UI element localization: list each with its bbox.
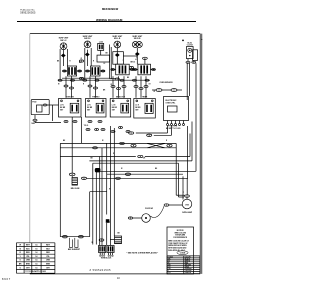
svg-text:OVEN SW: OVEN SW xyxy=(66,96,74,98)
svg-text:Y: Y xyxy=(168,270,169,272)
svg-text:T.O.D.: T.O.D. xyxy=(84,125,89,127)
svg-text:FOR REFERENCE: FOR REFERENCE xyxy=(173,237,187,239)
svg-text:5995200505: 5995200505 xyxy=(20,12,36,15)
svg-text:MDL: MDL xyxy=(32,123,35,125)
svg-text:Y: Y xyxy=(123,60,124,62)
svg-text:14: 14 xyxy=(35,244,37,247)
svg-text:SET: SET xyxy=(60,109,63,111)
svg-text:BK BR: BK BR xyxy=(135,107,141,109)
svg-text:TIMER: TIMER xyxy=(142,96,148,98)
svg-text:14: 14 xyxy=(35,255,37,258)
svg-text:L1: L1 xyxy=(135,59,137,61)
svg-text:SET: SET xyxy=(87,109,90,111)
svg-text:OVEN LAMP: OVEN LAMP xyxy=(182,211,193,214)
svg-text:BROWN: BROWN xyxy=(185,264,192,266)
svg-text:SW L.R.: SW L.R. xyxy=(114,38,121,40)
svg-text:OVEN SENSOR: OVEN SENSOR xyxy=(159,82,173,84)
svg-text:14: 14 xyxy=(35,247,37,250)
svg-text:BK BR: BK BR xyxy=(112,107,118,109)
svg-text:14: 14 xyxy=(35,266,37,269)
svg-text:14: 14 xyxy=(35,251,37,254)
svg-text:WHITE: WHITE xyxy=(185,260,190,262)
svg-text:NOTICE: NOTICE xyxy=(177,230,185,232)
svg-text:SW L.F.: SW L.F. xyxy=(60,40,67,42)
svg-text:PURPLE: PURPLE xyxy=(185,272,191,274)
svg-text:BRL ELEM: BRL ELEM xyxy=(71,188,80,190)
svg-text:14: 14 xyxy=(35,259,37,262)
svg-text:OVEN CTRL: OVEN CTRL xyxy=(166,103,176,105)
svg-text:GY: GY xyxy=(149,84,151,86)
svg-text:SELECTOR: SELECTOR xyxy=(116,96,126,98)
svg-text:BK BR: BK BR xyxy=(60,107,66,109)
svg-text:BK BR CT L1 N GD: BK BR CT L1 N GD xyxy=(166,128,181,130)
svg-text:COLOR: COLOR xyxy=(185,256,191,258)
svg-text:BKE ELEMENT: BKE ELEMENT xyxy=(68,249,81,251)
svg-text:14: 14 xyxy=(35,263,37,266)
svg-text:WIRE CODE USE COLOR CH: WIRE CODE USE COLOR CH xyxy=(168,241,189,243)
svg-text:* SEE NOTE 2 WHEN REPLACING *: * SEE NOTE 2 WHEN REPLACING * xyxy=(127,251,159,254)
svg-text:WIRE COLORS: WIRE COLORS xyxy=(174,232,185,234)
svg-text:P160: P160 xyxy=(32,102,36,104)
svg-text:CODE: CODE xyxy=(168,256,172,258)
svg-text:SW R.R.: SW R.R. xyxy=(134,38,142,40)
svg-text:SW R.F.: SW R.F. xyxy=(84,38,91,40)
svg-text:CLOCK: CLOCK xyxy=(187,44,194,46)
svg-text:Z 5995201505: Z 5995201505 xyxy=(90,269,112,272)
svg-text:THERMO: THERMO xyxy=(92,96,100,98)
svg-text:BK BR: BK BR xyxy=(87,107,93,109)
svg-text:BR-16: BR-16 xyxy=(131,62,136,64)
svg-text:DOOR SW: DOOR SW xyxy=(145,208,153,210)
svg-text:MEF322BGW: MEF322BGW xyxy=(102,7,119,11)
svg-text:TERM BLOCK: TERM BLOCK xyxy=(101,258,112,260)
svg-text:SET: SET xyxy=(135,109,138,111)
svg-text:YELLOW: YELLOW xyxy=(185,270,192,272)
svg-text:CODE: CODE xyxy=(180,252,186,254)
svg-text:GY: GY xyxy=(168,266,170,268)
svg-text:SET: SET xyxy=(112,109,115,111)
svg-text:8907: 8907 xyxy=(2,277,11,281)
svg-text:L2: L2 xyxy=(104,63,106,65)
